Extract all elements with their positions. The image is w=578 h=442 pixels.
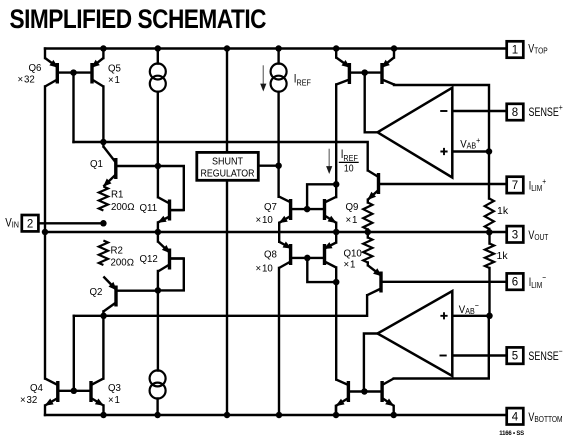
transistor top mirror PNP right [365,58,394,85]
pin label SENSE- [528,346,563,363]
wire shunt regulator output to IREF column [258,164,278,166]
wire bottom rail VBOTTOM [45,414,506,416]
resistor R2 200ohm [99,241,108,266]
wire Q6 Q5 bases down to upper rail [72,73,74,142]
svg-text:1166 • SS: 1166 • SS [499,431,524,437]
svg-text:VTOP: VTOP [528,44,547,56]
pin 8 box [507,104,524,120]
pin label VTOP [528,44,547,56]
wire x45 Q6 collector to Q4 collector [44,87,46,379]
label VAB- [459,301,479,316]
wire VOUT rail y232 [45,231,506,233]
transistor Q5 x1 PNP [74,58,104,87]
svg-text:7: 7 [512,180,518,192]
svg-text:× 1: × 1 [344,260,356,271]
wire quad upper base loop [307,184,336,209]
wire pin7 ILIM+ line [379,183,508,185]
transistor Q3 x1 NPN [74,379,104,406]
wire Q4 Q3 bases up to lower rail [73,316,75,391]
resistor ILIM- emitter [363,238,372,263]
transistor Q9 x1 NPN diode-connected [307,197,337,223]
current source lower left [150,370,166,398]
pin 2 box [22,215,39,231]
svg-text:SIMPLIFIED SCHEMATIC: SIMPLIFIED SCHEMATIC [10,4,267,34]
wire Q12 emitter from VOUT rail [157,232,159,242]
wire Q9 emitter to VOUT [335,223,337,232]
wire lower-left NPN emitter to rail [335,406,337,415]
svg-text:× 1: × 1 [108,395,120,406]
svg-text:× 1: × 1 [108,75,120,86]
transistor ILIM+ sense NPN [367,170,378,200]
resistor R1 200ohm [99,187,108,211]
transistor bottom mirror NPN right [364,379,394,407]
svg-text:1k: 1k [497,250,509,262]
svg-text:VOUT: VOUT [528,230,548,242]
svg-text:SHUNT: SHUNT [212,157,243,168]
resistor 1k lower [485,244,494,269]
wire op-amp U2 output to NPN bases [364,334,378,392]
wire Q12 base loop [158,259,184,291]
svg-text:2: 2 [27,218,33,230]
svg-text:Q2: Q2 [90,287,103,298]
wire op-amp U2 plus input to VAB- node [452,315,489,317]
wire Q5 collector down to Q1 collector [102,87,104,147]
wire mirror-base rail lower y316 [74,295,367,316]
wire VOUT through 1k lower to VAB- node [488,232,490,316]
arrow IREF/10 current direction [326,149,332,174]
wire bottom NPN pair emitters [336,406,394,415]
wire Q4 emitter stub [44,406,46,416]
transistor Q7 x10 NPN [279,197,307,224]
transistor Q2 PNP [103,277,157,312]
wire ILIM+ sense emitter lead [367,200,369,203]
svg-text:4: 4 [512,411,519,423]
wire shunt regulator bottom lead [226,180,228,415]
svg-text:Q5: Q5 [108,64,121,75]
wire pin8 SENSE+ to op-amp minus input [452,110,507,112]
svg-text:Q10: Q10 [344,248,363,259]
wire current source column to node A [157,49,159,167]
pin 6 box [507,273,524,289]
transistor top mirror PNP left [336,58,365,85]
pin 1 box [507,41,524,57]
wire quad lower base loop [307,258,336,282]
transistor Q12 PNP diode-connected [158,242,184,272]
transistor Q6 x32 PNP [45,58,74,87]
svg-text:× 10: × 10 [256,215,274,226]
wire Q10 collector down to lower mirror [335,268,337,380]
node label VIN [5,217,19,230]
transistor Q8 x10 PNP [279,242,307,269]
wire node A to Q11 collector [157,166,159,197]
transistor Q1 NPN [103,147,158,187]
wire Q2 collector to Q3 collector [102,312,104,379]
svg-text:Q7: Q7 [264,202,277,213]
pin 5 box [507,347,524,363]
wire Q12 collector to node B [157,271,159,290]
op-amp U1 upper [378,88,453,178]
current source IREF [271,64,287,92]
svg-text:Q1: Q1 [90,159,103,170]
wire op-amp U1 output to PNP bases [365,73,378,133]
svg-text:10: 10 [344,163,354,174]
wire Q8 collector to bottom rail [278,268,280,415]
pin label VBOTTOM [528,412,562,424]
svg-text:Q8: Q8 [264,249,277,260]
wire Q7 emitter to Q8 emitter [278,223,280,242]
wire pin6 ILIM- line [381,281,507,283]
svg-text:1k: 1k [497,205,509,217]
pin 4 box [507,408,524,424]
title SIMPLIFIED SCHEMATIC [10,4,267,34]
svg-text:VBOTTOM: VBOTTOM [528,412,562,424]
pin label VOUT [528,230,548,242]
svg-text:REGULATOR: REGULATOR [201,169,255,180]
svg-text:Q6: Q6 [29,63,42,74]
svg-text:Q3: Q3 [108,383,121,394]
svg-text:R2: R2 [111,246,123,257]
current source upper left [150,64,166,92]
svg-text:200Ω: 200Ω [111,202,135,213]
svg-text:200Ω: 200Ω [111,258,135,269]
svg-text:R1: R1 [111,190,123,201]
svg-text:6: 6 [512,277,518,289]
label IREF [294,73,311,87]
svg-text:Q4: Q4 [30,383,44,394]
resistor 1k upper [485,199,494,230]
label IREF/10 fraction [339,149,359,174]
transistor Q4 x32 NPN [45,379,74,406]
pin label ILIM- [529,273,547,290]
wire shunt regulator top lead [226,49,228,153]
wire node B to lower current source [156,290,159,415]
svg-text:Q12: Q12 [140,254,158,265]
label VAB+ [460,135,480,150]
pin label SENSE+ [529,102,564,119]
wire right NPN collector over to VAB- column [394,316,489,379]
svg-text:8: 8 [512,107,518,119]
wire IREF column rail to circles to Q7 collector [277,49,279,197]
pin 7 box [507,177,524,193]
wire op-amp U1 plus input to VAB+ node [452,150,489,152]
wire VAB+ node through 1k to VOUT [488,152,491,233]
transistor bottom mirror NPN left [336,380,365,407]
wire Q11 emitter to VOUT rail [157,223,159,233]
wire ILIM- zigzag from VOUT [367,232,369,238]
svg-text:1: 1 [512,45,518,57]
wire Q3 emitter stub [102,406,104,416]
wire ILIM+ zigzag to VOUT [367,230,369,233]
svg-text:× 10: × 10 [256,264,274,275]
wire top rail VTOP [45,47,506,49]
transistor Q10 x1 PNP diode-connected [307,242,336,267]
wire mirror-base rail upper y142 [74,142,368,170]
wire ILIM- emitter lead [367,263,369,266]
wire top PNP pair emitters [336,49,394,58]
wire Q5 emitter stub [102,49,104,59]
svg-text:3: 3 [512,229,518,241]
transistor ILIM- sense PNP [367,265,382,295]
wire mirror PNP collector to IREF10 node [335,85,337,198]
wire Q6 emitter stub [44,49,46,59]
op-amp U2 lower [378,291,453,376]
svg-text:Q11: Q11 [140,203,158,214]
resistor ILIM+ emitter [363,203,372,230]
svg-text:Q9: Q9 [346,202,359,213]
svg-text:× 1: × 1 [346,215,358,226]
svg-text:× 32: × 32 [18,75,35,86]
arrow IREF current direction [260,65,266,91]
transistor Q11 NPN diode-connected [158,197,184,223]
shunt regulator box [197,152,258,180]
pin 3 box [507,226,524,242]
svg-text:5: 5 [512,351,518,363]
wire Q11 base loop [158,166,184,210]
svg-text:× 32: × 32 [20,395,37,406]
wire right PNP collector over to VAB+ column [394,85,489,152]
pin label ILIM+ [529,176,547,193]
wire pin5 SENSE- to op-amp minus input [452,354,507,356]
wire Q10 emitter from VOUT [335,232,337,243]
wire VIN pin2 to R1R2 node [38,222,103,224]
